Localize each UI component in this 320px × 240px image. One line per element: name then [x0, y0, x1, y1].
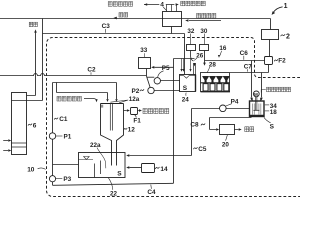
wire 30 drop to C6: [204, 51, 206, 64]
label 废气 left: [29, 22, 33, 26]
wire C7: [230, 65, 269, 98]
svg-text:30: 30: [200, 28, 208, 35]
wire 26 from box 32: [191, 51, 194, 62]
filter F2: [265, 57, 273, 65]
svg-text:12: 12: [128, 126, 136, 133]
svg-text:28: 28: [209, 61, 217, 68]
stirrer shaft: [256, 97, 257, 111]
funnels 28 row: [202, 76, 208, 82]
valve 14: [142, 164, 155, 173]
reactor 12 vessel: [101, 104, 124, 166]
svg-text:C8: C8: [190, 121, 199, 128]
svg-text:33: 33: [140, 47, 148, 54]
svg-text:M: M: [254, 92, 258, 97]
svg-text:F1: F1: [133, 117, 141, 124]
baffles in 22: [95, 161, 101, 178]
wire nozzle feed line inner: [57, 83, 108, 100]
wire main exhaust line to unit 2: [0, 19, 271, 30]
svg-text:F2: F2: [278, 58, 286, 65]
label 6: [28, 124, 32, 126]
wire C3 drop to scrubber 24: [184, 34, 186, 75]
svg-text:1: 1: [284, 3, 288, 10]
svg-text:14: 14: [160, 166, 168, 173]
motor M: [253, 91, 259, 97]
block 2 (exhaust fan): [262, 30, 279, 40]
label 34: [265, 104, 269, 106]
scrubber 24 tank: [180, 75, 196, 92]
wire C2 with crossovers: [0, 74, 147, 76]
svg-text:P4: P4: [231, 99, 239, 106]
svg-text:S: S: [117, 170, 122, 177]
wire P2 to scrubber: [154, 90, 180, 92]
svg-text:22: 22: [110, 190, 118, 197]
wire F1 out: [138, 110, 139, 112]
label F2: [274, 59, 278, 61]
label 18: [265, 110, 269, 112]
liquid level in 24: [180, 76, 196, 79]
wire long return pipe: [173, 59, 175, 184]
wire P5 to scrubber: [161, 80, 181, 82]
label S of 18: [264, 117, 271, 122]
wire C1 vertical: [52, 83, 54, 176]
label 2: [281, 34, 286, 36]
wire 20 outlet 废水: [234, 129, 238, 131]
label 12: [124, 128, 128, 130]
label 碳化物残渣 top: [181, 1, 185, 6]
svg-text:20: 20: [222, 141, 230, 148]
liquid level in 22: [79, 157, 94, 160]
svg-text:P1: P1: [64, 133, 72, 140]
wire nozzle feed line outer: [53, 83, 117, 100]
pump P5: [154, 78, 160, 84]
tank 22: [79, 153, 126, 178]
svg-text:10: 10: [27, 167, 35, 174]
svg-text:24: 24: [182, 96, 190, 103]
block 32: [187, 45, 196, 51]
svg-text:6: 6: [33, 122, 37, 129]
inlet arrows into 6: [3, 141, 8, 151]
svg-text:2: 2: [286, 34, 290, 41]
svg-text:18: 18: [270, 109, 278, 116]
pipe 26 double line into scrubber: [194, 64, 196, 75]
block 20 (water treatment): [220, 125, 235, 135]
svg-text:C7: C7: [244, 63, 253, 70]
wire C4: [53, 182, 174, 186]
wire C8 pipe: [210, 118, 252, 130]
block 6 (tall unit): [12, 93, 27, 155]
label C5: [193, 147, 197, 149]
svg-text:16: 16: [219, 45, 227, 52]
wire feed into tank 18 left: [251, 61, 253, 98]
svg-text:C3: C3: [102, 23, 111, 30]
wire 废气 vent from box 6: [27, 32, 36, 95]
label P3: [56, 178, 62, 180]
label P1: [56, 135, 62, 137]
wire top line drop to box 6: [27, 19, 43, 101]
tank 18 interior hatch: [251, 104, 253, 115]
svg-text:26: 26: [196, 52, 204, 59]
wire into valve 14: [129, 167, 141, 169]
wire into P5: [147, 76, 155, 78]
svg-text:22a: 22a: [90, 142, 101, 149]
label 碳化物残渣 right: [267, 87, 271, 92]
pump P1: [49, 133, 55, 139]
wire C1 into 22: [53, 164, 79, 166]
label 可燃性气体 mid with arrow: [57, 96, 61, 101]
svg-text:C2: C2: [87, 67, 96, 74]
wire C6: [205, 60, 266, 62]
shelf line in 16: [201, 82, 231, 84]
tank 18 rim legs: [252, 98, 260, 101]
svg-text:P3: P3: [63, 176, 71, 183]
tank 18 body: [250, 101, 265, 117]
label 至发电装置: [143, 109, 147, 114]
svg-text:12a: 12a: [129, 96, 140, 103]
svg-text:32: 32: [187, 28, 195, 35]
block 33 (liquid tank): [139, 58, 151, 69]
filter F1: [131, 108, 138, 115]
svg-text:P2: P2: [132, 88, 140, 95]
block 30: [200, 45, 209, 51]
internal lines of 6: [12, 101, 27, 148]
columns 28 row: [203, 84, 208, 91]
wire C3: [43, 27, 185, 34]
label 14: [155, 167, 159, 169]
svg-text:S: S: [270, 123, 275, 130]
wire 33 to return pipe stub: [154, 66, 173, 68]
svg-text:S: S: [183, 85, 188, 92]
wire unit2 to F2: [269, 40, 271, 57]
spray feed arrows into 24: [182, 59, 191, 70]
label 可燃性气体 top: [108, 2, 112, 7]
reactor mouth ticks: [101, 105, 103, 108]
wire P4 to tank 18: [226, 108, 249, 110]
wire manifold to spray nozzles: [174, 58, 195, 60]
wire offgas arrows above unit 4: [144, 5, 177, 12]
system boundary 10 (dashed): [47, 38, 301, 197]
reactor dip tube: [110, 104, 112, 131]
vessel 16 outline: [201, 73, 230, 92]
block 4 (pyrolysis furnace): [163, 12, 182, 27]
svg-text:C5: C5: [198, 146, 207, 153]
svg-text:C4: C4: [147, 189, 156, 196]
label 燃料气体 with feed line: [197, 13, 201, 18]
label C1: [54, 118, 58, 120]
pump P4: [220, 105, 227, 112]
svg-text:C1: C1: [59, 116, 68, 123]
wire 33 down to pump P2: [147, 69, 151, 88]
wire reactor to F1: [124, 110, 127, 112]
wire C5 vertical: [191, 109, 193, 156]
wire return into 22 upper: [129, 155, 191, 157]
pump P3: [49, 176, 55, 182]
label 废气 on top line: [119, 13, 123, 17]
pump P2: [148, 87, 154, 93]
wire to pump P4: [192, 108, 220, 110]
